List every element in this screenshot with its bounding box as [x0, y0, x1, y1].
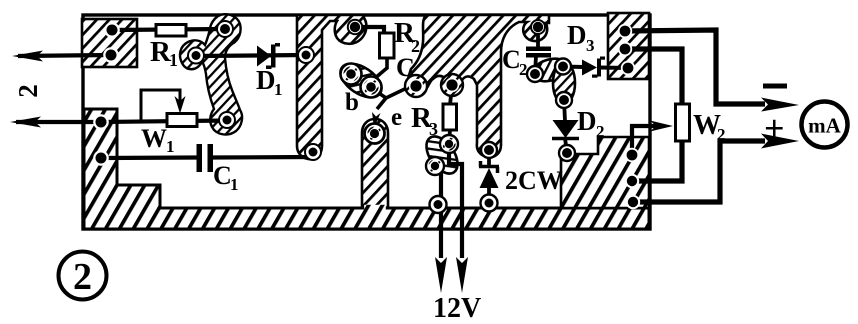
wire: plus wire to meter: [633, 141, 765, 202]
copper: b-cluster blob: [335, 57, 388, 104]
svg-text:3: 3: [429, 119, 438, 139]
svg-text:+: +: [764, 108, 785, 148]
resistor R3: [443, 104, 457, 130]
copper: bone blob (R1/D1/W1 island): [180, 14, 242, 134]
svg-text:D: D: [567, 20, 587, 50]
svg-text:2: 2: [596, 122, 605, 141]
pads: bottom-right block: [625, 148, 639, 162]
copper: C2/D3/D2 cluster blob: [530, 55, 570, 85]
wire: D2 net: [564, 100, 565, 121]
pads: left column: [298, 47, 314, 63]
svg-text:1: 1: [230, 175, 239, 194]
wire: W2 wiper from pad: [632, 126, 656, 155]
wire: C1 net: [101, 155, 197, 160]
board outline: [83, 15, 650, 229]
wire: R2 top: [355, 27, 384, 34]
diode D3: [582, 60, 597, 76]
potentiometer W2: [676, 104, 690, 141]
pads: top-right block: [618, 24, 632, 38]
pad: D2 bottom: [559, 145, 575, 161]
pads: central mass bottom: [405, 75, 427, 97]
svg-text:2: 2: [13, 84, 43, 98]
transistor leads b c e: [386, 86, 411, 98]
wire: left input arrow bottom: [16, 120, 101, 124]
potentiometer W1: [167, 114, 197, 127]
minus sign: [763, 84, 787, 89]
wire: zener top: [487, 150, 491, 168]
wire: D3 net: [563, 65, 583, 70]
pads: bottom-left column: [93, 114, 109, 130]
capacitor C2: [526, 47, 551, 52]
copper: bottom-left L and ground strip: [84, 109, 649, 229]
wire: minus wire to meter: [625, 30, 765, 104]
svg-text:12V: 12V: [433, 293, 481, 324]
resistor R2: [380, 33, 395, 58]
zener 2CW: [480, 168, 499, 188]
wire: 12V left: [435, 166, 441, 258]
pad: zener top / R3 column: [481, 142, 497, 158]
wire: R1 net: [112, 29, 225, 30]
copper: emitter column: [362, 119, 388, 208]
wire: R2 bottom to base: [374, 58, 387, 79]
copper: top-left block: [82, 19, 137, 67]
resistor R1: [156, 25, 186, 37]
capacitor C1: [197, 144, 203, 172]
pads: R3 bottom cluster: [440, 135, 458, 153]
svg-text:e: e: [391, 104, 402, 131]
pads: C2: [531, 20, 545, 34]
svg-text:b: b: [345, 89, 359, 116]
pads: bone blob: [217, 21, 233, 37]
copper: R3-bottom cluster blob: [420, 131, 464, 179]
copper: left column + top strip + R2-pad lobe: [297, 15, 366, 159]
pad: R2 lobe: [348, 20, 362, 34]
svg-text:D: D: [256, 65, 276, 95]
pads: top-left block: [104, 22, 120, 38]
svg-text:D: D: [577, 106, 597, 136]
diode D1: [257, 46, 271, 67]
pads: D3/D2 cluster: [555, 59, 571, 75]
pads: ground strip: [430, 196, 447, 213]
svg-text:3: 3: [586, 36, 595, 55]
copper: top-right block: [608, 13, 649, 79]
svg-text:C: C: [502, 45, 521, 74]
svg-text:1: 1: [274, 80, 283, 99]
meter mA: [802, 102, 848, 148]
pads: b cluster: [341, 64, 362, 85]
pad: emitter: [365, 124, 385, 144]
svg-text:1: 1: [169, 50, 178, 70]
svg-text:W: W: [141, 124, 167, 153]
wire: W1 net: [101, 121, 227, 123]
svg-text:1: 1: [166, 137, 175, 156]
svg-text:mA: mA: [808, 114, 841, 138]
copper: central mass: [407, 15, 549, 157]
svg-text:2: 2: [73, 256, 92, 298]
wire: W2 net: [625, 49, 682, 104]
svg-text:2CW: 2CW: [505, 166, 563, 195]
wire: left input arrow top: [18, 55, 111, 56]
wire: R3 bottom: [449, 130, 450, 144]
wire: R3 top: [450, 85, 452, 105]
wire: D1 net: [196, 55, 306, 56]
copper: bottom-right block: [561, 137, 649, 208]
wire: C2 net: [536, 27, 540, 48]
figure number circled 2: [59, 252, 107, 300]
diode D2: [553, 120, 579, 138]
svg-text:C: C: [213, 161, 232, 190]
wire: 12V right: [449, 144, 462, 258]
